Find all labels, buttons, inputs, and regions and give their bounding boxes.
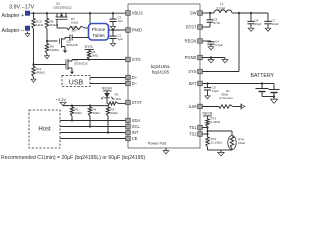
pin PGND (right) bbox=[185, 55, 203, 60]
battery BT1 bbox=[256, 84, 280, 98]
svg-text:47nF: 47nF bbox=[214, 21, 221, 25]
thermistor RTH bbox=[206, 130, 245, 150]
svg-text:REGN: REGN bbox=[203, 112, 213, 116]
svg-text:D+: D+ bbox=[132, 75, 138, 80]
capacitor C2 bbox=[109, 13, 122, 24]
IC U1 bq24195 body bbox=[128, 4, 200, 148]
wire R7 to node bbox=[85, 27, 91, 29]
svg-text:2.2kΩ: 2.2kΩ bbox=[113, 97, 122, 101]
wire CE bbox=[60, 138, 125, 140]
svg-text:SCL: SCL bbox=[132, 124, 141, 129]
capacitor C5 bbox=[203, 13, 221, 27]
resistor R4 bbox=[88, 106, 100, 116]
pin SDA (left) bbox=[126, 118, 141, 123]
resistor R7 bbox=[67, 17, 85, 30]
wire R5-SDA bbox=[71, 116, 73, 122]
wire node x90 bbox=[89, 13, 91, 37]
ground (ILIM side) bbox=[241, 104, 245, 110]
capacitor C1 bbox=[109, 30, 122, 42]
svg-text:100kΩ: 100kΩ bbox=[50, 48, 60, 52]
svg-text:Power Pad: Power Pad bbox=[148, 142, 167, 146]
svg-text:BTST: BTST bbox=[186, 25, 197, 30]
svg-text:Adapter –: Adapter – bbox=[2, 28, 25, 34]
wire C9 right bbox=[76, 37, 90, 39]
ground (C6) bbox=[248, 27, 254, 32]
svg-text:1nF: 1nF bbox=[72, 29, 77, 33]
resistor R8 bbox=[45, 13, 59, 29]
box Host bbox=[29, 110, 60, 148]
resistor RT1 bbox=[206, 116, 221, 127]
svg-text:Phone: Phone bbox=[92, 27, 106, 32]
svg-text:5.23kΩ: 5.23kΩ bbox=[211, 120, 221, 124]
box USB bbox=[62, 76, 90, 87]
ground (adapter-) bbox=[25, 32, 30, 37]
svg-text:TS2: TS2 bbox=[189, 132, 197, 137]
pin OTG (left) bbox=[126, 57, 141, 62]
wire VBUS rail bbox=[30, 12, 125, 14]
svg-text:3.9V –17V: 3.9V –17V bbox=[9, 5, 35, 11]
resistor R9 bbox=[45, 41, 59, 54]
svg-text:bq24195L: bq24195L bbox=[151, 64, 171, 69]
svg-text:(1.5A max): (1.5A max) bbox=[219, 96, 233, 100]
pin BAT (right) bbox=[189, 81, 202, 86]
wire OTG net bbox=[72, 58, 125, 60]
terminal Adapter+ bbox=[2, 11, 31, 19]
LED D1 bbox=[102, 91, 113, 104]
wire node A to Q3 bbox=[34, 64, 65, 66]
wire D- bbox=[90, 83, 125, 85]
terminal Adapter- bbox=[2, 26, 31, 34]
svg-text:Adapter +: Adapter + bbox=[2, 13, 25, 19]
svg-text:OTG: OTG bbox=[132, 57, 141, 62]
svg-text:bq24195: bq24195 bbox=[152, 70, 170, 75]
capacitor C3 bbox=[204, 84, 219, 95]
svg-text:CSD25302Q2: CSD25302Q2 bbox=[53, 6, 72, 10]
resistor R2 bbox=[107, 93, 125, 106]
svg-text:10kΩ: 10kΩ bbox=[238, 141, 246, 145]
wire 3v3 rail bbox=[63, 105, 108, 107]
svg-text:STAT: STAT bbox=[132, 100, 142, 105]
pin D+ (left) bbox=[126, 75, 138, 80]
svg-text:1MΩ: 1MΩ bbox=[92, 54, 99, 58]
transistor Q3 bbox=[64, 58, 88, 71]
ground (C4) bbox=[208, 46, 214, 50]
wire TS2 bbox=[203, 133, 209, 135]
pin STAT (left) bbox=[126, 100, 142, 105]
wire INT bbox=[60, 132, 125, 134]
svg-text:TS1: TS1 bbox=[189, 125, 197, 130]
pin SCL (left) bbox=[126, 124, 141, 129]
power pad label bbox=[148, 142, 167, 146]
wire SW bbox=[203, 12, 211, 14]
pin D&#8211; (left) bbox=[126, 81, 138, 86]
transistor Q1 bbox=[56, 13, 68, 19]
svg-text:L1: L1 bbox=[220, 2, 224, 6]
wire BAT rail bbox=[203, 82, 264, 84]
wire D+ bbox=[90, 77, 125, 79]
svg-text:D–: D– bbox=[132, 81, 138, 86]
label BATTERY bbox=[251, 73, 275, 79]
label REGN (ts) bbox=[203, 112, 213, 116]
svg-text:PMID: PMID bbox=[132, 28, 142, 33]
pin REGN (right) bbox=[185, 39, 203, 44]
svg-text:4.7µF: 4.7µF bbox=[215, 43, 223, 47]
resistor R1 bbox=[203, 89, 241, 108]
ground (C2) bbox=[110, 25, 115, 30]
wire TS1 bbox=[203, 126, 209, 134]
wire SDA bbox=[60, 120, 125, 122]
wire Q2 drain to C9 bbox=[64, 38, 67, 40]
pin SYS (right) bbox=[188, 69, 202, 74]
capacitor C4 bbox=[203, 40, 223, 48]
label 3.9V-17V bbox=[9, 5, 35, 11]
svg-text:BSS138: BSS138 bbox=[67, 43, 78, 47]
pin SW (right) bbox=[190, 11, 202, 16]
ground (TS) bbox=[218, 150, 224, 156]
inductor L1 bbox=[210, 2, 239, 13]
svg-text:+3.3V: +3.3V bbox=[56, 97, 67, 102]
transistor Q2 bbox=[47, 38, 78, 49]
capacitor C6 bbox=[247, 13, 261, 27]
arrow Q3 to USB box bbox=[70, 71, 74, 74]
svg-text:CE: CE bbox=[132, 136, 138, 141]
note recommended C1 bbox=[1, 155, 145, 161]
label REGN (led) bbox=[102, 87, 112, 91]
wire SCL bbox=[60, 126, 125, 128]
pin TS2 (right) bbox=[189, 132, 202, 137]
ground (PGND b) bbox=[222, 58, 228, 63]
svg-text:10kΩ: 10kΩ bbox=[71, 21, 79, 25]
terminal +3.3V bbox=[56, 97, 67, 106]
svg-text:SW: SW bbox=[190, 11, 197, 16]
svg-text:10kΩ: 10kΩ bbox=[75, 111, 83, 115]
label SYS bbox=[85, 44, 95, 49]
resistor R6 bbox=[87, 49, 98, 59]
wire R8 to Q2 gate bbox=[46, 29, 48, 42]
resistor R3 bbox=[106, 106, 118, 116]
svg-text:10kΩ: 10kΩ bbox=[93, 111, 101, 115]
svg-text:31.23kΩ: 31.23kΩ bbox=[211, 141, 223, 145]
pin INT (left) bbox=[126, 130, 139, 135]
resistor R5 bbox=[70, 106, 82, 116]
svg-text:VBUS: VBUS bbox=[132, 11, 143, 16]
svg-text:USB: USB bbox=[69, 79, 84, 86]
svg-text:BAT: BAT bbox=[189, 81, 197, 86]
wire SYS rail bbox=[203, 13, 239, 72]
svg-text:10kΩ: 10kΩ bbox=[111, 111, 119, 115]
svg-text:REGN: REGN bbox=[185, 39, 197, 44]
svg-text:SYS: SYS bbox=[188, 69, 196, 74]
callout Phone Tablet bbox=[89, 24, 109, 41]
svg-text:252kΩ: 252kΩ bbox=[50, 23, 60, 27]
pin VBUS (left) bbox=[126, 11, 144, 16]
svg-text:10µF: 10µF bbox=[255, 22, 262, 26]
pin PMID (left) bbox=[126, 28, 142, 33]
ground (R11) bbox=[31, 77, 36, 82]
svg-text:1µF: 1µF bbox=[118, 19, 123, 23]
svg-text:R2: R2 bbox=[115, 93, 119, 97]
capacitor C7 bbox=[264, 13, 278, 27]
svg-text:10µF: 10µF bbox=[212, 89, 219, 93]
pin BTST (right) bbox=[186, 25, 202, 30]
svg-text:INT: INT bbox=[132, 130, 139, 135]
pin TS1 (right) bbox=[189, 125, 202, 130]
wire Q1 gate bbox=[57, 19, 67, 28]
wire PGND bbox=[203, 56, 225, 58]
ground (PGND a) bbox=[208, 58, 214, 63]
svg-text:1µF: 1µF bbox=[118, 37, 123, 41]
wire node A vertical bbox=[32, 29, 34, 66]
svg-text:Host: Host bbox=[38, 127, 51, 133]
pin ILIM (right) bbox=[189, 104, 203, 109]
svg-text:Tablet: Tablet bbox=[92, 33, 105, 38]
resistor RT2 bbox=[206, 137, 223, 147]
svg-text:10µF: 10µF bbox=[272, 22, 279, 26]
wire L1 out bbox=[238, 12, 268, 14]
svg-text:SDA: SDA bbox=[132, 118, 141, 123]
ground (Q2 source) bbox=[63, 49, 67, 53]
wire R3-INT bbox=[107, 116, 109, 134]
svg-text:430kΩ: 430kΩ bbox=[36, 71, 46, 75]
resistor R11 bbox=[32, 65, 46, 78]
svg-text:BATTERY: BATTERY bbox=[251, 73, 275, 79]
ground (power pad) bbox=[163, 148, 169, 154]
svg-text:Recommended C1(min) = 20µF (bq: Recommended C1(min) = 20µF (bq24195L) or… bbox=[1, 155, 145, 161]
pin CE (left) bbox=[126, 136, 138, 141]
svg-text:REGN: REGN bbox=[102, 87, 112, 91]
svg-text:SI2301DS: SI2301DS bbox=[74, 62, 88, 66]
ground (R9) bbox=[45, 54, 50, 59]
svg-text:12kΩ: 12kΩ bbox=[36, 23, 44, 27]
ground (C3) bbox=[205, 94, 210, 99]
wire RT2 gnd bbox=[208, 147, 222, 150]
capacitor C9 bbox=[65, 25, 77, 41]
svg-text:SYS: SYS bbox=[85, 44, 93, 49]
svg-text:ILIM: ILIM bbox=[189, 104, 198, 109]
wire PMID rail bbox=[108, 29, 125, 31]
wire TS to RTH bbox=[207, 134, 209, 137]
ground (battery) bbox=[270, 97, 277, 104]
ground (C7) bbox=[265, 27, 271, 32]
svg-text:PGND: PGND bbox=[185, 55, 197, 60]
resistor R10 bbox=[32, 13, 44, 29]
wire R4-SCL bbox=[89, 116, 91, 128]
transistor Q1 label bbox=[53, 2, 72, 10]
ground (C1) bbox=[110, 42, 115, 47]
